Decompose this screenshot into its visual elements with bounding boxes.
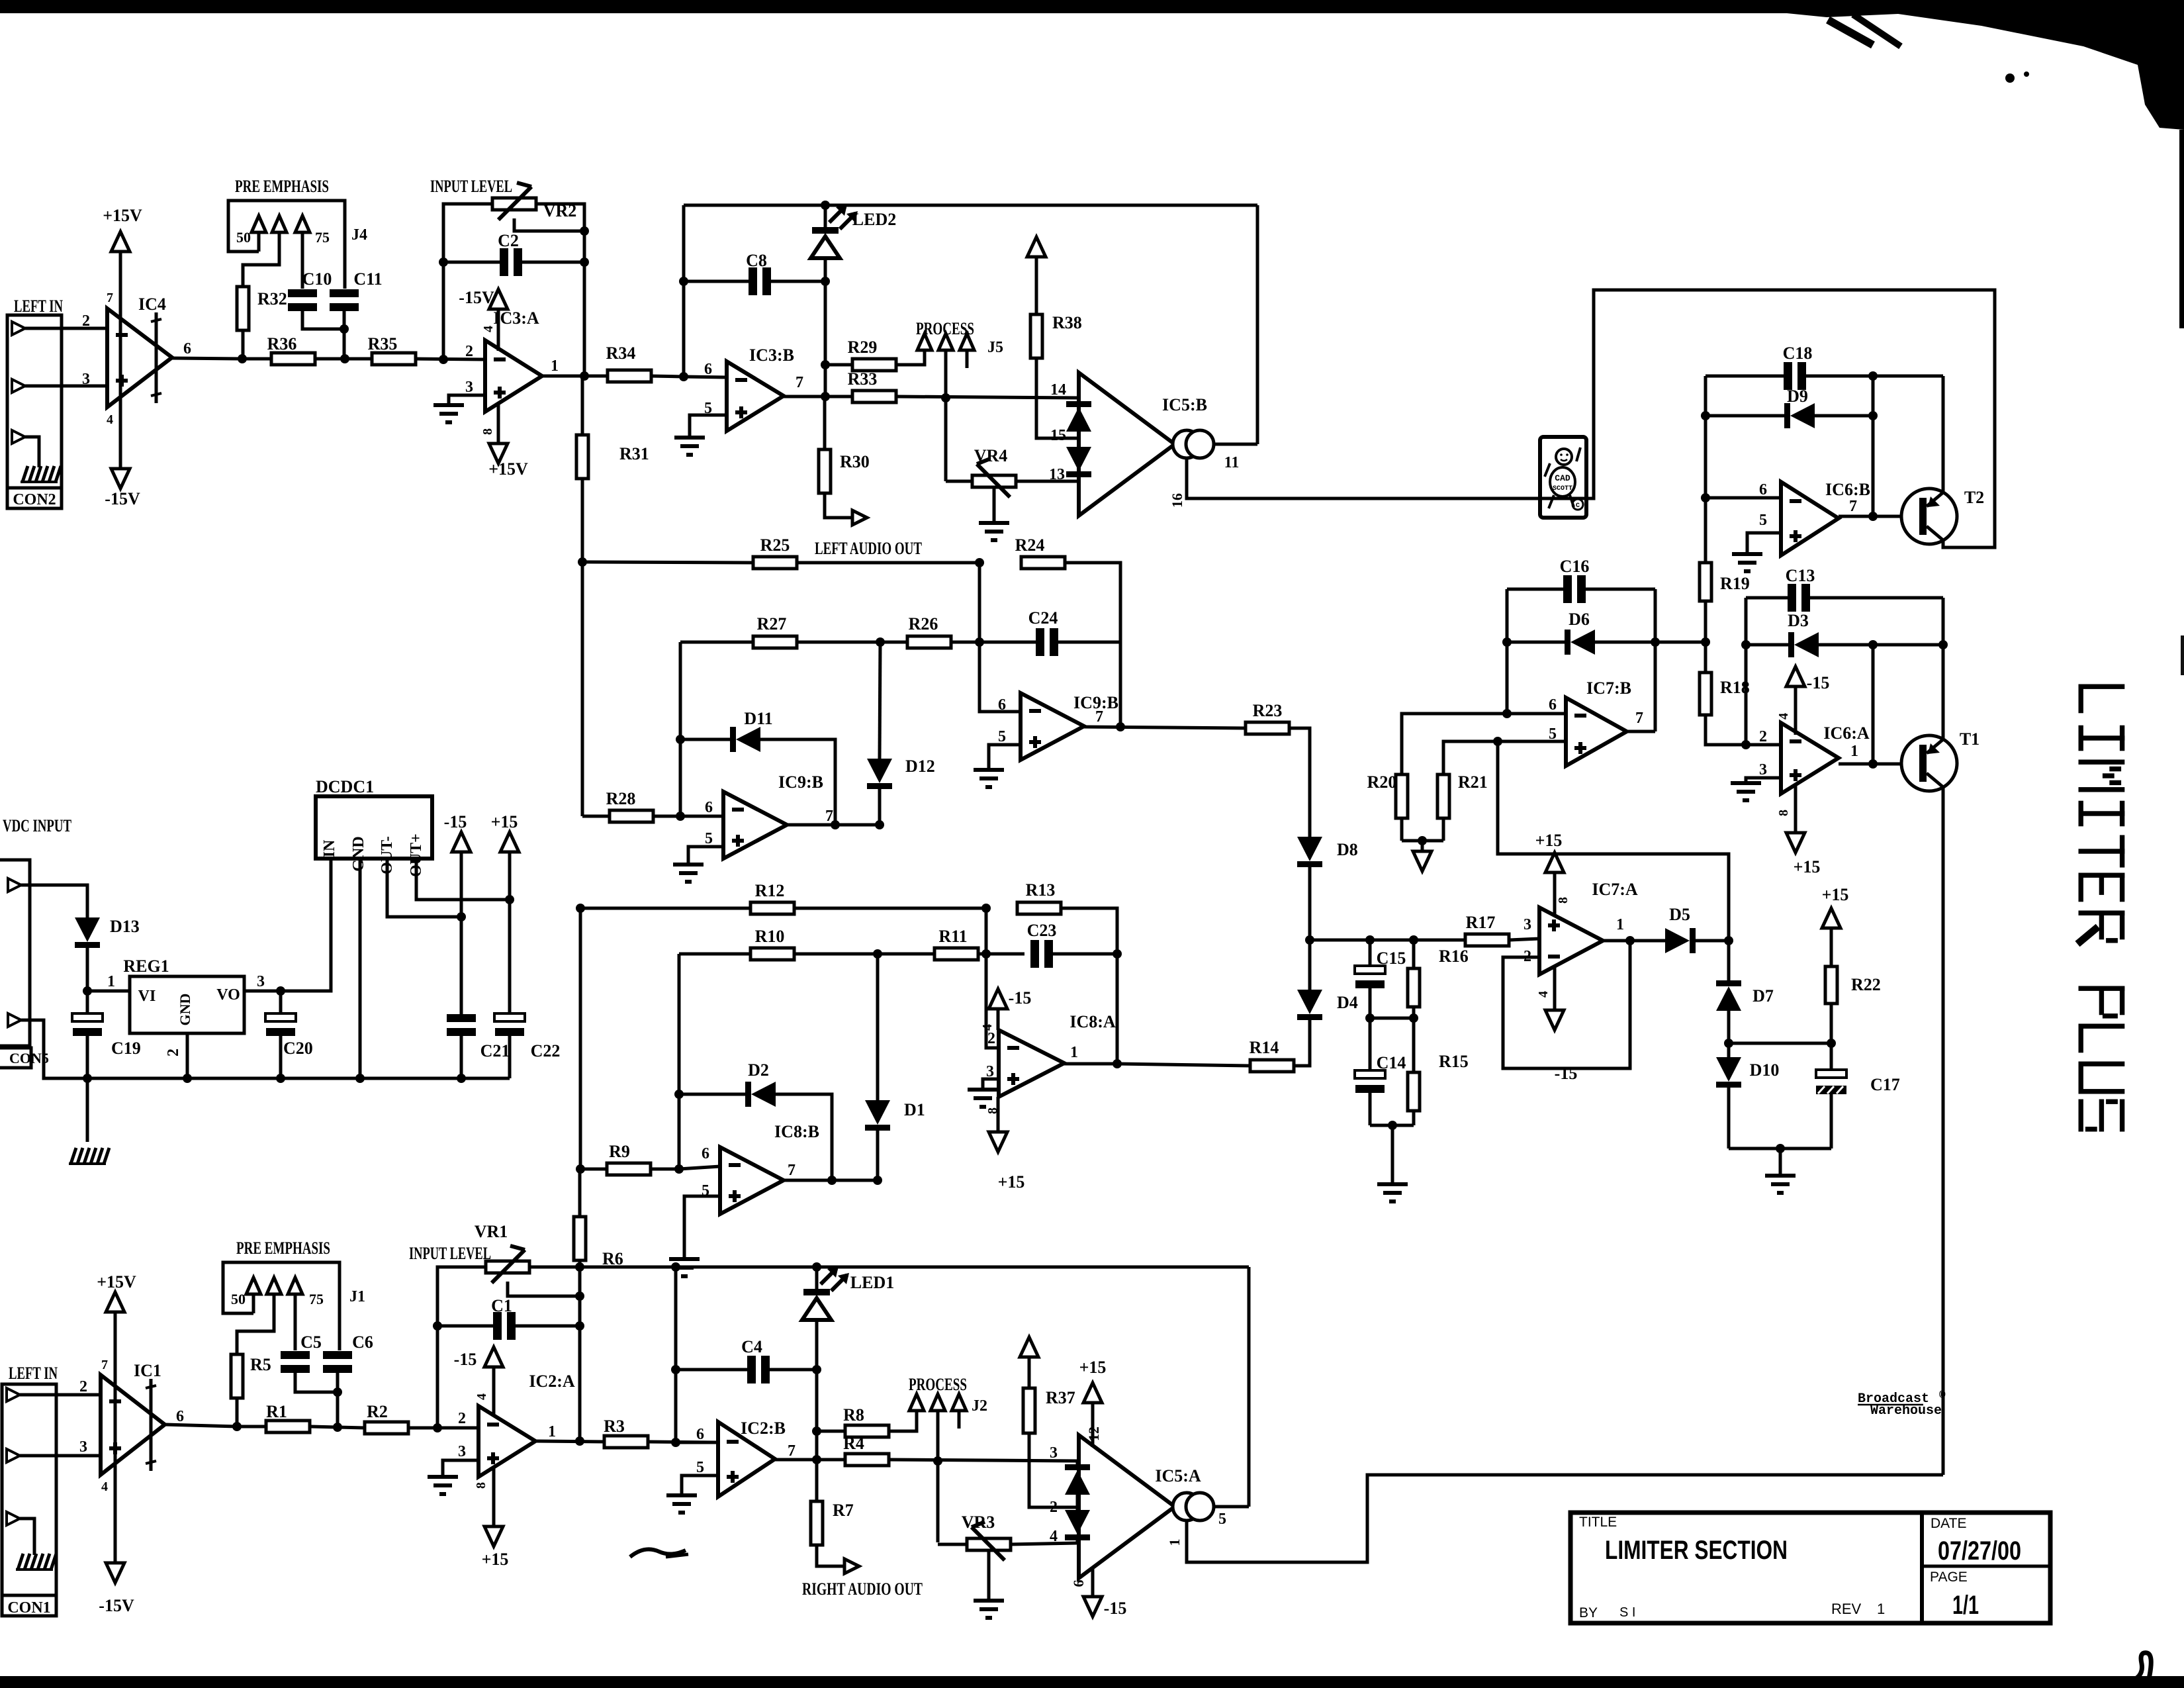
label PRE EMPHASIS (top) [235, 177, 329, 196]
junction D3 / output leg [1868, 640, 1878, 649]
label VDC INPUT [3, 816, 71, 835]
resistor R1 [237, 1421, 338, 1432]
svg-text:C6: C6 [352, 1333, 373, 1352]
svg-text:DCDC1: DCDC1 [316, 777, 374, 796]
diode D8 [1297, 837, 1322, 940]
wire R31 column down [581, 562, 584, 816]
label pin 5 IC9:B lower [705, 830, 713, 847]
label +15 IC6:A [1794, 857, 1821, 876]
CON5 pin 1 arrow [8, 878, 21, 892]
ground IC3:A pin3 [433, 405, 464, 422]
side text LIMITER PLUS [2077, 684, 2124, 1132]
svg-text:R30: R30 [840, 452, 870, 471]
label pin 3 IC7:A [1524, 916, 1531, 933]
label R1 [266, 1402, 287, 1421]
svg-text:INPUT LEVEL: INPUT LEVEL [409, 1244, 491, 1263]
label IC8:A [1069, 1012, 1116, 1031]
label J5 [987, 339, 1003, 356]
ground IC6:A pin3 [1731, 783, 1761, 800]
svg-text:R8: R8 [843, 1405, 864, 1425]
svg-text:C14: C14 [1377, 1053, 1406, 1072]
junction pin2 IC6:A [1741, 740, 1751, 749]
junction R9 left [576, 1164, 585, 1174]
dc-dc converter DCDC1 [316, 796, 432, 859]
label R6 [602, 1249, 623, 1268]
svg-text:5: 5 [998, 728, 1006, 745]
svg-text:C10: C10 [302, 269, 332, 289]
junction C1 right [575, 1321, 584, 1331]
wire IC4 output [172, 358, 242, 359]
label J4 [351, 226, 367, 244]
junction IC2:B out / LED1 / R7 [812, 1455, 821, 1464]
svg-text:3: 3 [82, 371, 90, 388]
wire REG1 gnd pin [186, 1033, 189, 1078]
svg-text:VDC INPUT: VDC INPUT [3, 816, 71, 835]
svg-text:75: 75 [309, 1291, 324, 1307]
power +15 arrow IC6:A [1786, 833, 1805, 853]
label R16 [1439, 947, 1469, 966]
svg-text:IC7:B: IC7:B [1586, 679, 1631, 698]
svg-text:6: 6 [696, 1426, 704, 1443]
label IC1 [134, 1361, 161, 1380]
wire LED2 to R29 node [824, 281, 827, 397]
label PROCESS (top) [916, 319, 974, 338]
power -15 arrow IC6:A [1786, 667, 1805, 735]
label pin 6 IC1 [176, 1408, 184, 1425]
CON2 pin gnd arrow [12, 430, 25, 444]
label C24 [1028, 608, 1058, 628]
junction D6 left [1502, 637, 1512, 647]
op-amp IC8:A [999, 1030, 1064, 1097]
svg-text:R38: R38 [1052, 313, 1082, 332]
connector CON1 box [2, 1384, 56, 1616]
label DCDC1 [316, 777, 374, 796]
jumper block J1 box [223, 1262, 340, 1350]
label IC7:A [1592, 880, 1638, 899]
wire IC7:B pin5 from R21 [1443, 741, 1566, 776]
svg-text:1: 1 [1877, 1601, 1885, 1617]
svg-text:VR1: VR1 [475, 1222, 508, 1241]
svg-text:R15: R15 [1439, 1052, 1469, 1071]
junction IC1 out / R5 [232, 1422, 242, 1431]
wire T1 collector [1942, 645, 1945, 739]
label IC3:A [493, 308, 539, 328]
svg-text:-15V: -15V [105, 489, 140, 508]
svg-text:7: 7 [788, 1162, 796, 1179]
svg-text:R17: R17 [1466, 913, 1496, 932]
svg-text:R9: R9 [609, 1142, 630, 1161]
svg-text:1: 1 [551, 357, 559, 375]
svg-text:LEFT IN: LEFT IN [9, 1364, 58, 1383]
label pin 7 IC8:B [788, 1162, 796, 1179]
resistor R11 [878, 948, 1024, 960]
svg-text:-15: -15 [1104, 1599, 1127, 1618]
svg-text:R16: R16 [1439, 947, 1469, 966]
label R13 [1026, 880, 1056, 900]
svg-text:R27: R27 [757, 614, 787, 633]
svg-text:CON2: CON2 [13, 491, 56, 508]
label -15V IC1 [99, 1596, 134, 1615]
svg-text:5: 5 [704, 400, 712, 417]
wire D13 to REG1 [87, 990, 130, 993]
svg-text:C15: C15 [1377, 949, 1406, 968]
wire IC5:B pin16 loop [1187, 290, 1995, 547]
wire C23 leg down [1116, 908, 1119, 1064]
svg-text:PRE EMPHASIS: PRE EMPHASIS [235, 177, 329, 196]
label IC6:A [1823, 724, 1870, 743]
label REG1 [123, 957, 169, 976]
wire IC6:A pin3 stub [1746, 778, 1781, 781]
ground hatch in CON1 [16, 1554, 56, 1570]
op-amp IC1 [101, 1375, 165, 1475]
svg-text:C2: C2 [498, 231, 519, 250]
label R25 [760, 536, 790, 555]
label D11 [744, 709, 772, 728]
label R29 [848, 338, 878, 357]
label 50 (J1) [231, 1291, 246, 1307]
scan artifact bottom border band [0, 1676, 2184, 1688]
label pin 3 IC2:A [458, 1443, 466, 1460]
junction C2 right [580, 258, 589, 267]
svg-text:7: 7 [796, 374, 803, 391]
wire IC3:B output [784, 395, 852, 399]
junction D10/C17 ground [1776, 1144, 1785, 1153]
label PAGE [1930, 1570, 1968, 1585]
ground IC8:A pin3 [968, 1090, 998, 1107]
junction R25/R24 [975, 558, 984, 567]
wire IC6:B pin5 stub [1747, 533, 1781, 552]
wire R12 row left leg [579, 908, 582, 1169]
label C4 [741, 1337, 762, 1356]
resistor R28 [582, 810, 723, 822]
label R5 [250, 1355, 271, 1374]
svg-text:7: 7 [788, 1442, 796, 1460]
label INPUT LEVEL (top) [430, 177, 512, 196]
scan artifact pen squiggle near IC2:B [630, 1549, 688, 1557]
label REV [1831, 1601, 1862, 1617]
svg-text:C1: C1 [491, 1296, 512, 1315]
ground hatch in CON2 [21, 466, 61, 482]
svg-text:4: 4 [475, 1393, 489, 1400]
label pin 2 IC8:A [987, 1030, 995, 1047]
transistor T2 [1901, 489, 1957, 544]
junction D6 right [1651, 637, 1660, 647]
diode D1 [865, 954, 890, 1180]
connector CON2 box [7, 315, 62, 508]
power +15 arrow IC7:A [1545, 853, 1564, 917]
svg-text:15: 15 [1050, 427, 1066, 444]
label C5 [300, 1333, 322, 1352]
label R4 [843, 1434, 864, 1453]
transistor T1 [1901, 735, 1957, 791]
arrow down R20/R21 [1413, 841, 1432, 871]
label +15 DCDC [491, 812, 518, 831]
svg-text:2: 2 [165, 1049, 182, 1056]
junction R11/D1 [873, 949, 882, 959]
svg-text:C22: C22 [531, 1041, 561, 1060]
label pin 7 IC9:B lower [825, 808, 833, 825]
wire IC5:B output [1214, 443, 1257, 446]
svg-text:6: 6 [1070, 1580, 1087, 1587]
label pin 2 IC4 [82, 312, 90, 330]
CON1 pin 3 arrow [7, 1449, 20, 1462]
op-amp IC4 [107, 308, 172, 407]
J1 pin arrow mid [237, 1278, 281, 1354]
junction C20 top [276, 986, 285, 996]
svg-text:13: 13 [1049, 466, 1065, 483]
wire IC6:A power down [1794, 785, 1797, 834]
svg-text:R13: R13 [1026, 880, 1056, 900]
wire R27 left leg [679, 642, 682, 816]
junction C8 row left [679, 277, 688, 286]
svg-text:J5: J5 [987, 339, 1003, 356]
resistor R30 [819, 397, 852, 518]
capacitor C1 [437, 1312, 580, 1340]
svg-text:LEFT IN: LEFT IN [14, 297, 63, 316]
label C20 [283, 1039, 313, 1058]
svg-text:VO: VO [216, 986, 240, 1004]
label pin 1 IC7:A [1616, 916, 1624, 933]
junction C2 left [439, 258, 448, 267]
svg-text:D4: D4 [1337, 993, 1358, 1012]
svg-text:-15V: -15V [459, 288, 494, 307]
junction IC3:B out / LED2 / R30 [821, 392, 830, 401]
ground VR4 [979, 523, 1009, 540]
wire IC2:A power down [492, 1467, 496, 1528]
label pin 5 IC2:B [696, 1459, 704, 1476]
label IC4 [138, 295, 166, 314]
svg-text:4: 4 [481, 326, 496, 332]
junction R1/R2/C6 [333, 1423, 342, 1432]
label LEFT IN (bottom) [9, 1364, 58, 1383]
junction IC9:B out / C24 leg [1116, 722, 1125, 731]
label pin 12 IC5:A [1085, 1427, 1102, 1441]
svg-text:IC2:B: IC2:B [741, 1419, 786, 1438]
svg-text:75: 75 [315, 229, 330, 246]
title text LIMITER SECTION [1605, 1536, 1788, 1565]
label R9 [609, 1142, 630, 1161]
svg-text:IC6:B: IC6:B [1825, 480, 1870, 499]
wire IC9:B upper output [1084, 727, 1246, 728]
diode D11 [680, 727, 835, 825]
wire IC8:A pin2 leg [986, 908, 999, 1048]
label pin 3 IC6:A [1759, 761, 1767, 778]
potentiometer VR2 [492, 183, 536, 220]
label pin 7 IC3:B [796, 374, 803, 391]
label C11 [353, 269, 382, 289]
label -15 IC7:A [1555, 1064, 1578, 1083]
svg-text:6: 6 [1759, 481, 1767, 498]
wire D10/C17 join [1729, 1147, 1831, 1150]
capacitor C16 [1507, 575, 1655, 603]
wire IC7:A feedback loop [1503, 941, 1630, 1068]
svg-text:+15V: +15V [488, 459, 528, 479]
power +15 arrow DCDC [500, 832, 519, 900]
svg-text:R21: R21 [1458, 773, 1488, 792]
wire IC5:A power down [1091, 1568, 1095, 1598]
label pin 4 IC6:A [1776, 713, 1791, 720]
resistor R26 [880, 636, 979, 648]
svg-text:C4: C4 [741, 1337, 762, 1356]
label R22 [1851, 975, 1881, 994]
label C2 [498, 231, 519, 250]
label +15V IC4 [103, 206, 142, 225]
svg-text:CAD: CAD [1555, 473, 1570, 483]
junction R8 node [812, 1427, 821, 1436]
wire top rail LED2 [684, 204, 1257, 207]
svg-text:IC5:A: IC5:A [1155, 1466, 1201, 1485]
junction VR1 wiper [575, 1291, 584, 1301]
date text [1938, 1536, 2021, 1566]
label IC3:B [749, 346, 794, 365]
junction C8/LED2 [821, 277, 830, 286]
resistor R25 [582, 557, 979, 569]
CON1 pin 2 arrow [7, 1388, 20, 1401]
capacitor C13 [1746, 584, 1943, 612]
svg-text:+15: +15 [491, 812, 518, 831]
resistor R18 [1700, 673, 1746, 745]
svg-text:D1: D1 [904, 1100, 925, 1119]
label pin 6 IC3:B [704, 361, 712, 378]
svg-text:D5: D5 [1669, 905, 1690, 924]
label pin 5 IC6:B [1759, 512, 1767, 529]
resistor R22 [1822, 908, 1841, 1043]
resistor R4 [845, 1454, 1079, 1466]
power +15 arrow IC2:A [484, 1526, 503, 1546]
capacitor C6 [323, 1351, 352, 1427]
svg-text:7: 7 [1635, 710, 1643, 727]
potentiometer VR4 [946, 459, 1079, 497]
svg-text:D6: D6 [1569, 610, 1590, 629]
wire IC5:A output [1212, 1505, 1249, 1509]
wire IC9:B pin6 leg [979, 563, 1021, 712]
junction R26/D12 [876, 637, 885, 647]
junction D7 bottom [1724, 1039, 1733, 1048]
wire C8 loop left leg [682, 205, 686, 377]
process arrow 3 J5 (top) [960, 334, 974, 368]
svg-text:+15V: +15V [103, 206, 142, 225]
label -15V IC3:A [459, 288, 494, 307]
junction pin6 IC6:B [1701, 493, 1710, 502]
label +15 IC8:A [998, 1172, 1025, 1192]
ground hatch DCDC rail [69, 1148, 109, 1164]
svg-text:T1: T1 [1960, 729, 1979, 749]
label D5 [1669, 905, 1690, 924]
label pin 7 IC7:B [1635, 710, 1643, 727]
svg-text:R7: R7 [833, 1501, 854, 1520]
junction C1 left [433, 1321, 442, 1331]
svg-text:8: 8 [474, 1482, 488, 1489]
junction R35 / VR2 loop [439, 355, 448, 364]
label -15 IC2:A [454, 1350, 477, 1369]
resistor R19 [1700, 498, 1711, 673]
svg-text:R36: R36 [267, 334, 297, 353]
svg-text:D11: D11 [744, 709, 772, 728]
label pin 16 IC5:B [1169, 493, 1185, 508]
wire CON5 pin1 to D13 [21, 885, 87, 917]
svg-text:6: 6 [183, 340, 191, 357]
op-amp IC3:A [485, 340, 542, 412]
junction rail / R6 column [575, 1262, 584, 1272]
svg-text:4: 4 [1776, 713, 1791, 720]
svg-text:07/27/00: 07/27/00 [1938, 1536, 2021, 1566]
wire IC8:A out to R14 [1117, 1064, 1250, 1066]
junction LED2 top [821, 201, 830, 210]
wire IC4 power rail [119, 250, 122, 470]
wire C18 loop left leg [1704, 376, 1707, 498]
label C16 [1560, 557, 1590, 576]
label D2 [748, 1060, 769, 1080]
capacitor C21 [447, 917, 476, 1078]
label C17 [1870, 1075, 1900, 1094]
label pin 6 IC2:B [696, 1426, 704, 1443]
svg-text:6: 6 [702, 1145, 709, 1162]
wire IC9:B lower pin5 stub [688, 847, 723, 863]
svg-text:3: 3 [1524, 916, 1531, 933]
wire IC2:B pin6 [676, 1441, 718, 1444]
scan artifact pen mark bottom right [2127, 1653, 2151, 1688]
op-amp IC9:B upper [1021, 693, 1084, 760]
label IC9:B lower [778, 773, 823, 792]
junction rail C21 [457, 1074, 466, 1083]
process arrow 1 (top) [917, 334, 932, 350]
diode D12 [867, 642, 892, 825]
voltage regulator REG1 [130, 976, 244, 1033]
label C10 [302, 269, 332, 289]
label pin 2 IC1 [79, 1378, 87, 1395]
resistor R23 [1246, 722, 1310, 837]
junction OUT- / -15 [457, 912, 466, 921]
svg-text:1: 1 [1070, 1044, 1078, 1061]
capacitor C23 [1030, 940, 1117, 968]
junction D8 / row M [1305, 935, 1314, 945]
wire IC5:A diode stack pins [1076, 1461, 1079, 1543]
label R27 [757, 614, 787, 633]
J1 pin arrow 50 [246, 1278, 261, 1313]
wire C24 to IC9:B output leg [1119, 642, 1122, 727]
svg-text:2: 2 [987, 1030, 995, 1047]
svg-text:-15: -15 [454, 1350, 477, 1369]
wire IC6:B output [1839, 515, 1901, 518]
label pin 4 IC3:A [481, 326, 496, 332]
wire IC1 output [165, 1425, 237, 1427]
label D12 [905, 757, 935, 776]
power -15 arrow IC7:A [1545, 1010, 1564, 1030]
svg-text:C5: C5 [300, 1333, 322, 1352]
wire IC5:A pin1 to T1 emitter [1187, 1475, 1943, 1562]
junction IC6:B out [1868, 512, 1878, 521]
wire R10 left leg [678, 954, 681, 1169]
capacitor C15 [1355, 940, 1385, 1018]
junction R28 / D11 leg [676, 812, 685, 821]
label C15 [1377, 949, 1406, 968]
junction OUT+ / +15 [505, 895, 514, 904]
svg-text:50: 50 [236, 229, 251, 246]
svg-text:R29: R29 [848, 338, 878, 357]
diode D4 [1294, 940, 1322, 1066]
label pin 4 IC4 [107, 412, 113, 427]
label CON5 [9, 1050, 49, 1066]
wire R20/R21 join [1402, 839, 1443, 843]
label R3 [604, 1417, 625, 1436]
wire IC7:B pin6 from R20 [1402, 714, 1566, 776]
svg-text:SCOTT: SCOTT [1553, 485, 1572, 492]
label CON2 [13, 491, 56, 508]
wire CON1 pin2 to IC1 [20, 1393, 101, 1397]
label R19 [1720, 574, 1750, 593]
scan artifact top border band [0, 0, 2184, 13]
svg-text:2: 2 [465, 343, 473, 360]
